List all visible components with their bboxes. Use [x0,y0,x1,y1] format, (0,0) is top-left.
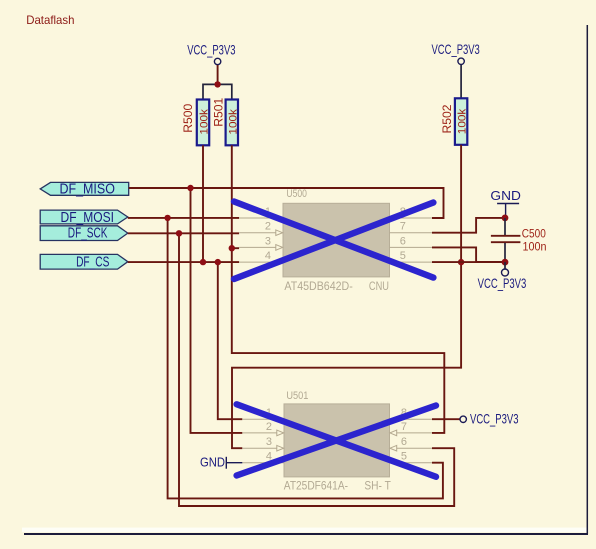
junction R501 pin3 [229,245,235,251]
svg-text:4: 4 [265,250,271,262]
junction MISO branch [187,185,193,191]
junction VCC node [502,259,509,266]
power port VCC_P3V3 above R502 [432,42,480,98]
svg-text:DF_CS: DF_CS [76,254,109,270]
svg-text:Dataflash: Dataflash [26,13,74,27]
junction R502 column at VCC row [458,259,464,265]
svg-text:R500: R500 [183,104,195,133]
net label DF_CS [40,254,128,270]
svg-text:100n: 100n [523,242,547,254]
wire R502 bottom down around to U501 pin3 [232,145,461,448]
capacitor C500 100n [491,218,547,262]
net label DF_MISO [40,182,129,198]
power port VCC_P3V3 at U501 pin8 [432,411,519,426]
svg-text:SH- T: SH- T [364,478,390,492]
wire DF_SCK to U500 pin2 [128,232,239,234]
wire U500 pin6 to VCC node [432,247,505,262]
svg-text:VCC_P3V3: VCC_P3V3 [470,411,519,426]
svg-text:6: 6 [401,436,407,448]
pin 8 [390,418,433,420]
wire R500 bottom to DF_CS row [202,145,204,262]
junction R500 at CS row [200,259,206,265]
no-fit cross over U501 [237,404,436,477]
svg-text:R501: R501 [213,98,225,127]
pin 1 [242,418,284,420]
svg-text:R502: R502 [442,105,454,134]
pin 6 [390,246,433,248]
wire DF_MOSI to U500 pin1 [128,217,239,219]
net label DF_SCK [40,226,128,242]
svg-text:100k: 100k [199,109,211,135]
svg-text:GND: GND [200,455,225,470]
wire DF_MOSI branch to U501 pin5 [168,218,443,499]
wire DF_CS branch to U501 pin1 [218,262,243,419]
pin 4 [239,261,283,263]
IC U501 AT25DF641A [242,390,432,492]
svg-text:2: 2 [266,421,272,433]
junction CS branch [215,259,221,265]
power port VCC_P3V3 below C500 [478,262,527,291]
pin 4 [242,462,284,464]
pin 2 [242,432,276,434]
svg-text:5: 5 [400,250,406,262]
svg-text:100k: 100k [457,108,469,134]
pin 5 [390,462,433,464]
pin 8 [390,217,433,219]
junction SCK branch [176,230,182,236]
junction GND node [502,215,509,222]
svg-text:100k: 100k [227,109,239,135]
svg-text:DF_MISO: DF_MISO [60,182,115,198]
pin 6 [397,447,432,449]
svg-text:U500: U500 [286,188,307,200]
wire stub pin3 U500 [232,247,239,249]
pin 1 [239,217,283,219]
svg-text:3: 3 [266,436,272,448]
svg-text:VCC_P3V3: VCC_P3V3 [478,276,527,291]
power port VCC_P3V3 top [187,42,235,84]
pin 7 [397,432,432,434]
svg-text:7: 7 [400,221,406,233]
wire R501 bottom to U500 pin3 and around to U501 pin7 [232,145,444,433]
svg-text:AT25DF641A-: AT25DF641A- [284,478,348,492]
svg-text:U501: U501 [286,390,308,402]
wire DF_MISO to U500 pin8 [129,188,444,218]
pin 7 [390,232,433,234]
resistor R501 100k [213,98,239,146]
svg-text:6: 6 [400,235,406,247]
resistor R500 100k [183,100,211,146]
svg-text:CNU: CNU [369,279,389,293]
svg-text:AT45DB642D-: AT45DB642D- [284,279,352,293]
junction at VCC tee [214,81,220,87]
pin 3 [242,447,276,449]
pin 3 [239,246,276,248]
op IC U500 AT45DB642D [239,188,432,293]
svg-text:GND: GND [490,188,521,203]
no-fit cross over U500 [234,202,433,280]
wire U500 pin7 to GND node [432,218,505,233]
ground GND at U501 pin4 [200,455,242,470]
svg-text:DF_MOSI: DF_MOSI [61,210,115,226]
wire DF_SCK branch to U501 pin6 [179,233,454,506]
net label DF_MOSI [40,210,128,226]
svg-text:DF_SCK: DF_SCK [68,226,108,242]
pin 2 [239,232,276,234]
ground GND [490,188,521,218]
junction MOSI branch [164,215,170,221]
pin 5 [390,261,433,263]
svg-text:5: 5 [401,451,407,463]
svg-text:C500: C500 [522,229,546,241]
svg-text:2: 2 [265,221,271,233]
svg-text:3: 3 [265,235,271,247]
wire DF_MISO branch to U501 pin2 [191,188,243,433]
wire DF_CS to U500 pin4 [128,261,239,263]
resistor R502 100k [442,98,469,145]
svg-text:VCC_P3V3: VCC_P3V3 [187,42,235,57]
wire VCC tee to R500 R501 tops [203,84,232,99]
svg-text:7: 7 [401,421,407,433]
svg-text:VCC_P3V3: VCC_P3V3 [432,42,480,57]
wire U500 pin5 to VCC node [432,261,505,263]
